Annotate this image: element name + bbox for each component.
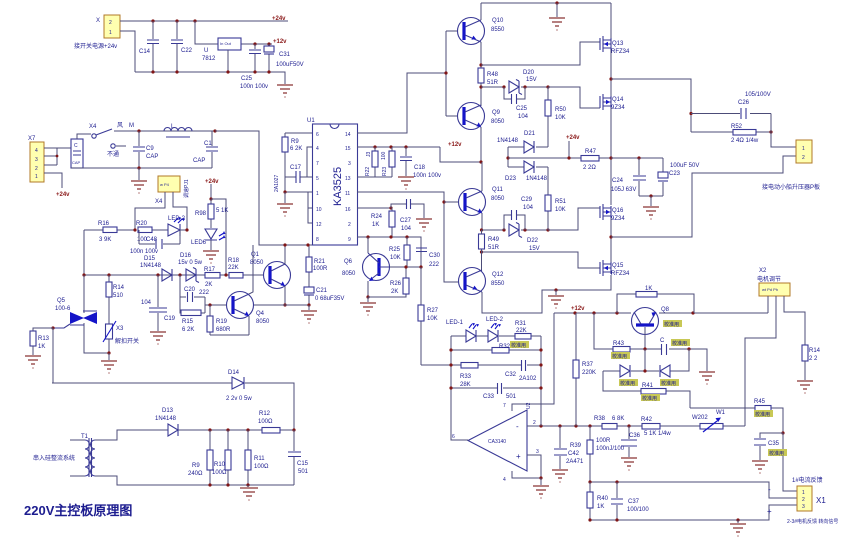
LED LED-2 top [168,216,187,236]
wire to R18 column [211,199,226,275]
node [185,228,188,231]
wire op-amp output [451,336,468,440]
svg-text:3: 3 [536,449,539,455]
wire bottom loop rail top [590,482,797,498]
svg-text:LED6: LED6 [191,240,207,246]
resistor R11 [245,430,269,485]
svg-text:100Ω: 100Ω [258,419,273,425]
wire Q12 emitter path to Q15 source [482,275,611,313]
svg-text:C18: C18 [414,165,426,171]
node [691,311,694,314]
svg-text:6 2K: 6 2K [182,327,194,333]
svg-text:R25: R25 [389,247,401,253]
svg-text:CAP: CAP [193,158,205,164]
wire C48 risers [139,230,180,244]
svg-text:9Z34: 9Z34 [611,105,625,111]
node [546,85,549,88]
svg-text:D13: D13 [162,408,174,414]
node [588,480,591,483]
svg-text:100n 100v: 100n 100v [413,173,441,179]
svg-text:M: M [129,123,134,129]
resistor R41 row [603,371,690,408]
node [539,348,542,351]
resistor R51 [545,167,567,230]
node [373,145,376,148]
svg-text:+12v: +12v [273,39,287,45]
svg-text:100nJ/100: 100nJ/100 [596,446,625,452]
svg-text:13: 13 [345,176,351,182]
svg-text:100Ω: 100Ω [254,464,269,470]
MOSFET Q13 [600,36,630,55]
node [366,235,369,238]
svg-text:2: 2 [35,166,38,172]
wire X2 pin2 [745,296,776,426]
wire R45 row [690,408,783,433]
svg-text:C: C [74,143,78,149]
svg-text:104: 104 [401,226,412,232]
capacitor C19 [141,275,176,331]
svg-text:R39: R39 [570,443,582,449]
resistor R9b [188,430,213,485]
connector X4 highlighted box 调速 [155,176,180,205]
svg-text:+12v: +12v [448,142,462,148]
svg-text:14: 14 [345,132,351,138]
labels X1 polarity [767,485,772,516]
node [208,483,211,486]
svg-text:C22: C22 [181,48,193,54]
svg-text:1N4148: 1N4148 [526,176,548,182]
svg-text:R14: R14 [113,285,125,291]
svg-text:R9: R9 [192,463,200,469]
svg-text:220V主控板原理图: 220V主控板原理图 [24,503,132,518]
LED LED6 [191,229,226,250]
wire Q4 emitter down [248,316,250,335]
node on rail [151,19,154,22]
zener D16 [178,253,203,283]
resistor R37 [573,313,596,426]
svg-text:C29: C29 [521,197,533,203]
wire pin15 +12v row [357,146,440,148]
svg-text:2: 2 [109,20,112,26]
node [449,348,452,351]
wire pin1 to bottom rail [120,31,135,72]
svg-text:J3: J3 [366,152,372,158]
node [479,63,482,66]
svg-text:电机调节: 电机调节 [757,275,781,283]
node on rail [175,19,178,22]
resistor R48 [478,68,499,106]
node [107,273,110,276]
wire pins 10 12 tie [308,192,312,223]
node [588,518,591,521]
wire Q6 collector row [390,266,421,268]
svg-text:-: - [768,485,771,494]
svg-text:3: 3 [348,161,351,167]
ground C35 [752,461,768,473]
svg-text:100uF50V: 100uF50V [276,62,304,68]
node [137,129,140,132]
node [226,483,229,486]
capacitor C1 [193,131,218,168]
svg-text:C21: C21 [316,288,328,294]
wire filter top line [114,130,259,132]
node [283,303,286,306]
wire Q10 Q9 base tie [446,31,458,116]
svg-text:1K: 1K [372,222,379,228]
node [209,197,212,200]
diode D13 [155,408,178,436]
svg-text:2A1027: 2A1027 [274,175,280,192]
wire Q14 gate bracket [548,87,600,108]
node [208,428,211,431]
svg-text:3: 3 [35,157,38,163]
wire Q11 base stub [444,201,459,203]
svg-text:2: 2 [802,497,805,503]
ground cal [699,372,715,384]
svg-text:100Ω: 100Ω [212,470,227,476]
svg-text:LED-2: LED-2 [168,216,186,222]
node [567,156,570,159]
wire emitter row y305 [253,304,309,306]
node [627,424,630,427]
svg-text:R33: R33 [460,374,472,380]
wire bottom row y335 [210,334,249,336]
wire top +24 rail [481,2,611,4]
svg-text:LED-1: LED-1 [446,320,464,326]
svg-text:2K: 2K [205,282,212,288]
svg-text:D20: D20 [523,70,535,76]
wire to X1 pin1 [783,433,797,491]
svg-text:R24: R24 [371,214,383,220]
wire pin14 to driver [357,73,446,133]
svg-text:C23: C23 [669,171,681,177]
wires X7 pin stubs [44,148,62,188]
node [307,303,310,306]
svg-text:100R: 100R [313,266,328,272]
node [637,156,640,159]
svg-text:15: 15 [345,146,351,152]
svg-text:+24v: +24v [205,179,219,185]
resistor R32 [492,341,529,353]
svg-text:+: + [767,507,772,516]
wire D20 row [481,86,580,88]
wire MOSFET rail lower [610,218,612,262]
svg-text:X3: X3 [116,326,124,332]
node [82,273,85,276]
svg-text:2 2Ω: 2 2Ω [583,165,596,171]
wire pin9 row [357,237,421,267]
svg-text:D15: D15 [144,256,156,262]
wire +24v drop [568,141,570,158]
svg-text:10K: 10K [555,207,566,213]
node [615,311,618,314]
svg-text:R98: R98 [195,211,207,217]
svg-text:10K: 10K [427,316,438,322]
svg-text:16: 16 [345,207,351,213]
node [389,206,392,209]
node [539,363,542,366]
svg-text:3: 3 [802,504,805,510]
svg-text:X7: X7 [28,136,36,142]
capacitor C cal [660,338,690,355]
svg-text:680R: 680R [216,327,231,333]
svg-text:Q1: Q1 [251,252,260,258]
resistor R14 510 [106,275,125,324]
svg-text:C14: C14 [139,49,151,55]
wire C24 C23 bottom rail [639,195,663,197]
svg-text:100R: 100R [596,438,611,444]
wire +24v drop [210,184,212,199]
svg-text:接电动小船升压器P板: 接电动小船升压器P板 [762,183,820,191]
resistor R21 [306,245,328,287]
node [405,235,408,238]
connector X2 [757,268,790,296]
node [615,518,618,521]
node [444,71,447,74]
wire D14 row [52,383,294,430]
node [246,483,249,486]
MOSFET Q15 [600,260,630,277]
capacitor C25 [504,87,529,120]
svg-text:1K: 1K [38,344,45,350]
svg-text:R19: R19 [216,319,228,325]
wire to P connector pin1 [771,114,796,148]
node [442,200,445,203]
wire MOSFET rail upper [610,3,612,205]
svg-text:C9: C9 [146,146,154,152]
svg-text:51R: 51R [487,80,499,86]
svg-text:校准用: 校准用 [664,321,679,328]
resistor R25 [389,237,410,267]
svg-text:C25: C25 [241,76,253,82]
wire lower output to P connector pin2 [611,156,796,237]
svg-text:校准用: 校准用 [672,340,687,347]
svg-text:2: 2 [348,222,351,228]
svg-text:222: 222 [199,290,210,296]
capacitor C9 [133,131,158,168]
wire feedback right vertical [540,336,542,426]
svg-text:W202: W202 [692,415,708,421]
svg-text:校准用: 校准用 [511,342,526,349]
svg-text:风: 风 [117,122,123,129]
svg-text:R18: R18 [228,258,240,264]
svg-text:C35: C35 [768,441,780,447]
transistor Q10 [458,18,506,45]
svg-text:W1: W1 [716,410,726,416]
svg-text:C17: C17 [290,165,302,171]
potentiometer W202 W1 [692,410,726,432]
capacitor C27 [391,199,424,232]
node on rail [193,19,196,22]
resistor R12 [258,411,280,433]
svg-text:Q13: Q13 [612,41,624,47]
svg-text:R14: R14 [809,348,821,354]
transistor Q11 [459,187,506,216]
svg-text:2A471: 2A471 [566,459,584,465]
svg-text:4: 4 [316,146,319,152]
resistor 1K over Q8 [617,286,694,313]
svg-text:Q16: Q16 [612,208,624,214]
svg-text:28K: 28K [460,382,471,388]
capacitor C36 [621,426,641,457]
svg-text:C31: C31 [279,52,291,58]
resistor R15 [180,297,205,333]
transistor Q8 [632,307,683,349]
node [615,480,618,483]
svg-text:KA3525: KA3525 [332,167,344,206]
wire Q6 emitter row [368,294,406,297]
ground LED6 [203,251,219,263]
capacitor C15 [288,430,309,485]
svg-text:串入硅整流系统: 串入硅整流系统 [33,454,75,462]
ground bottom rail left [240,485,258,500]
svg-text:C24: C24 [612,178,624,184]
LED LED-2b [486,317,515,342]
svg-text:22K: 22K [516,328,527,334]
svg-text:C15: C15 [297,461,309,467]
wire R32 row [451,349,541,351]
svg-text:C42: C42 [568,451,580,457]
resistor R20 [136,221,168,243]
svg-text:D21: D21 [524,131,536,137]
svg-text:R26: R26 [390,281,402,287]
label C25 100n 100v [240,76,268,90]
node [539,424,542,427]
node [107,351,110,354]
svg-text:R50: R50 [555,107,567,113]
svg-text:3 9K: 3 9K [99,237,111,243]
transformer T1 [70,434,95,477]
svg-text:C36: C36 [629,433,641,439]
svg-text:Q6: Q6 [344,259,353,265]
node [479,160,482,163]
svg-text:D23: D23 [505,176,517,182]
node [133,228,136,231]
node [502,228,505,231]
svg-text:5: 5 [316,176,319,182]
svg-text:100/100: 100/100 [627,507,649,513]
svg-text:104: 104 [523,205,534,211]
svg-text:10K: 10K [555,115,566,121]
resistor R27 [418,267,439,365]
node [366,295,369,298]
svg-text:Q8: Q8 [661,307,670,313]
transistor Q6 [342,237,390,297]
wire +24 node to C24 C23 [611,157,663,159]
svg-text:D22: D22 [527,238,539,244]
svg-text:100uF 50V: 100uF 50V [670,163,699,169]
svg-text:100-6: 100-6 [55,306,71,312]
node [480,228,483,231]
wire pin1 gnd row [285,177,312,192]
svg-text:104: 104 [518,114,529,120]
svg-text:RFZ34: RFZ34 [611,49,630,55]
capacitor C18 [400,147,441,179]
svg-text:X2: X2 [759,268,767,274]
svg-text:CAP: CAP [146,154,158,160]
svg-text:R45: R45 [754,399,766,405]
svg-text:8050: 8050 [250,260,264,266]
ground top rail [549,3,565,30]
node [555,1,558,4]
wire +12v feed to driver [440,147,481,162]
node [208,303,211,306]
capacitor box C CAP [57,139,83,168]
svg-text:不通: 不通 [107,150,119,158]
resistor R19 [207,305,231,335]
ground R13 [25,356,41,368]
svg-text:R11: R11 [254,456,265,462]
svg-text:RFZ34: RFZ34 [611,271,630,277]
svg-text:7: 7 [503,403,506,409]
svg-text:In Out: In Out [220,41,232,46]
wire Q13 gate bracket [481,42,600,65]
node [404,145,407,148]
svg-text:100n 100v: 100n 100v [130,249,158,255]
wire minus input row y426 [527,425,745,427]
connector X1 [787,476,838,525]
capacitor C14 [139,21,159,72]
ground X3 [101,353,117,373]
svg-text:6 8K: 6 8K [612,416,624,422]
svg-text:2K: 2K [391,289,398,295]
svg-text:R21: R21 [314,259,326,265]
wire R33 C32 row [421,364,541,366]
capacitor C20 [180,275,210,302]
wire row main y275 [84,230,263,275]
svg-text:1: 1 [802,490,805,496]
svg-text:-: - [516,422,519,431]
wire pin11 row to Q11 Q12 bases [357,192,459,282]
svg-text:501: 501 [506,394,517,400]
svg-text:+24v: +24v [566,135,580,141]
wire op-amp V+ from rail [512,313,554,411]
node [404,265,407,268]
ground C42 [552,470,568,482]
ground psu [277,85,293,97]
svg-text:+: + [516,452,521,461]
diode D cal right [660,365,679,387]
wire AC line corner down to pin8 row [215,131,313,245]
svg-text:+24v: +24v [56,192,70,198]
svg-text:校准用: 校准用 [661,380,676,387]
svg-text:104: 104 [141,300,152,306]
diode D15 [140,256,172,281]
ground C24 C23 [643,196,659,219]
svg-text:2 2: 2 2 [809,356,818,362]
svg-text:C20: C20 [184,287,196,293]
svg-text:105/100V: 105/100V [745,92,771,98]
inductor L [164,124,192,137]
connector X5 (switch power input) [96,15,120,38]
svg-text:D14: D14 [228,370,240,376]
regulator U 7812 [195,21,272,72]
ground bottom rail [730,520,746,536]
wire gate to R13 [33,328,53,331]
resistor R9 6.2K [282,133,302,177]
wire secondary bottom rail [95,476,294,485]
svg-text:调速PJ1: 调速PJ1 [183,179,190,198]
capacitor C22 [171,21,193,72]
node [502,85,505,88]
node [573,311,576,314]
capacitor C30 [416,248,441,268]
svg-text:Q15: Q15 [612,263,624,269]
svg-text:接开关电源+24v: 接开关电源+24v [74,42,117,50]
node [389,145,392,148]
resistor R33 [460,363,478,389]
junction dots bottom rail [151,70,270,73]
